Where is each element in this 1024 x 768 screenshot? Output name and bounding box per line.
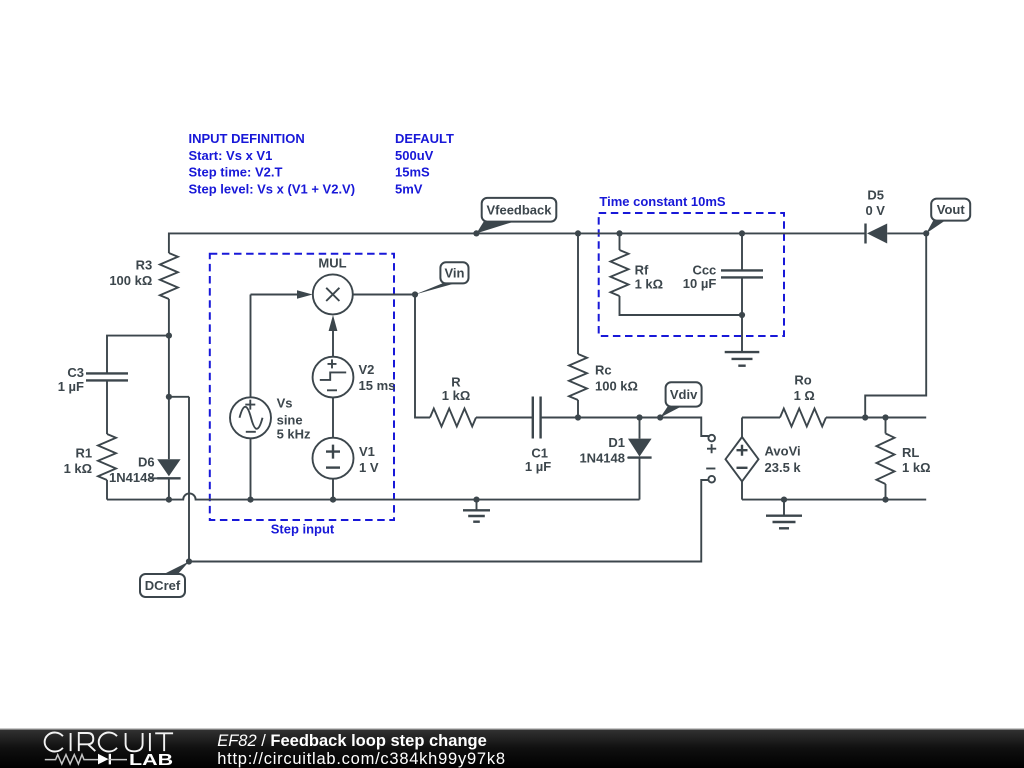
svg-text:10 µF: 10 µF (683, 276, 717, 291)
svg-text:LAB: LAB (129, 752, 173, 768)
svg-text:sine: sine (277, 412, 303, 427)
svg-text:V1: V1 (359, 444, 375, 459)
svg-text:1 kΩ: 1 kΩ (442, 388, 471, 403)
svg-text:Ro: Ro (794, 373, 811, 388)
svg-text:1N4148: 1N4148 (579, 450, 625, 465)
svg-text:DCref: DCref (145, 578, 181, 593)
svg-text:5 kHz: 5 kHz (277, 426, 311, 441)
svg-text:1 kΩ: 1 kΩ (902, 460, 931, 475)
svg-text:100 kΩ: 100 kΩ (109, 273, 152, 288)
svg-text:1 µF: 1 µF (525, 459, 551, 474)
svg-text:Vs: Vs (277, 395, 293, 410)
svg-text:D5: D5 (867, 188, 884, 203)
svg-text:Vdiv: Vdiv (670, 387, 698, 402)
svg-text:Vfeedback: Vfeedback (486, 202, 552, 217)
svg-text:1 kΩ: 1 kΩ (635, 277, 664, 292)
svg-text:1N4148: 1N4148 (109, 470, 155, 485)
svg-text:Step level: Vs x (V1 + V2.V): Step level: Vs x (V1 + V2.V) (189, 181, 356, 196)
svg-text:Rc: Rc (595, 363, 612, 378)
svg-text:500uV: 500uV (395, 148, 434, 163)
svg-text:RL: RL (902, 445, 919, 460)
svg-text:AvoVi: AvoVi (765, 444, 801, 459)
svg-text:0 V: 0 V (865, 203, 885, 218)
svg-text:15 ms: 15 ms (359, 378, 396, 393)
svg-text:1 V: 1 V (359, 460, 379, 475)
svg-text:15mS: 15mS (395, 165, 430, 180)
svg-text:23.5 k: 23.5 k (765, 460, 802, 475)
svg-text:R1: R1 (75, 445, 92, 460)
svg-text:D6: D6 (138, 454, 155, 469)
svg-text:DEFAULT: DEFAULT (395, 131, 454, 146)
svg-text:MUL: MUL (318, 256, 346, 271)
svg-text:Start: Vs x V1: Start: Vs x V1 (189, 148, 273, 163)
svg-text:INPUT DEFINITION: INPUT DEFINITION (189, 131, 305, 146)
svg-text:Vin: Vin (444, 265, 464, 280)
svg-text:Time constant 10mS: Time constant 10mS (599, 194, 726, 209)
svg-text:D1: D1 (608, 435, 625, 450)
svg-text:Vout: Vout (937, 202, 966, 217)
svg-text:5mV: 5mV (395, 181, 423, 196)
svg-text:Step input: Step input (271, 522, 335, 537)
svg-text:1 kΩ: 1 kΩ (64, 461, 93, 476)
svg-text:http://circuitlab.com/c384kh99: http://circuitlab.com/c384kh99y97k8 (217, 750, 506, 768)
svg-text:1 µF: 1 µF (58, 379, 84, 394)
svg-text:1 Ω: 1 Ω (794, 388, 815, 403)
svg-text:EF82 / Feedback loop step chan: EF82 / Feedback loop step change (217, 732, 487, 750)
svg-text:V2: V2 (359, 362, 375, 377)
svg-text:Rf: Rf (635, 262, 649, 277)
svg-text:R3: R3 (136, 257, 153, 272)
svg-text:Step time: V2.T: Step time: V2.T (189, 165, 283, 180)
svg-text:100 kΩ: 100 kΩ (595, 378, 638, 393)
